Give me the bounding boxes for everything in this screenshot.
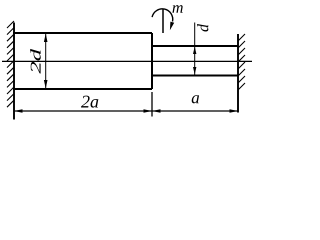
step extension line	[151, 92, 153, 117]
label 2a	[81, 96, 98, 108]
dimension a left arrow	[152, 109, 161, 113]
dimension 2a left arrow	[14, 109, 23, 113]
moment arm line	[162, 10, 164, 34]
large shaft section (diameter 2d)	[13, 33, 152, 89]
left fixed wall	[13, 23, 15, 120]
dimension a right arrow	[230, 109, 239, 113]
dimension 2d arrow down	[44, 80, 48, 89]
moment arc	[152, 9, 173, 22]
label m	[172, 5, 182, 13]
dimension line d	[194, 23, 196, 75]
moment arrowhead	[170, 22, 174, 31]
label a	[192, 95, 199, 103]
dimension line a	[152, 110, 238, 112]
left wall hatching	[7, 21, 14, 107]
right wall hatching	[238, 34, 245, 90]
label d	[197, 24, 208, 32]
label 2d	[30, 49, 41, 74]
small shaft section (diameter d)	[152, 46, 238, 76]
dimension line 2a	[14, 110, 152, 112]
dimension line 2d	[45, 34, 47, 88]
dimension d arrow up	[193, 47, 196, 55]
right fixed wall	[237, 34, 239, 113]
axis centerline	[2, 60, 252, 62]
dimension d arrow down	[193, 67, 196, 75]
dimension 2a right arrow	[144, 109, 153, 113]
dimension 2d arrow up	[44, 34, 48, 43]
